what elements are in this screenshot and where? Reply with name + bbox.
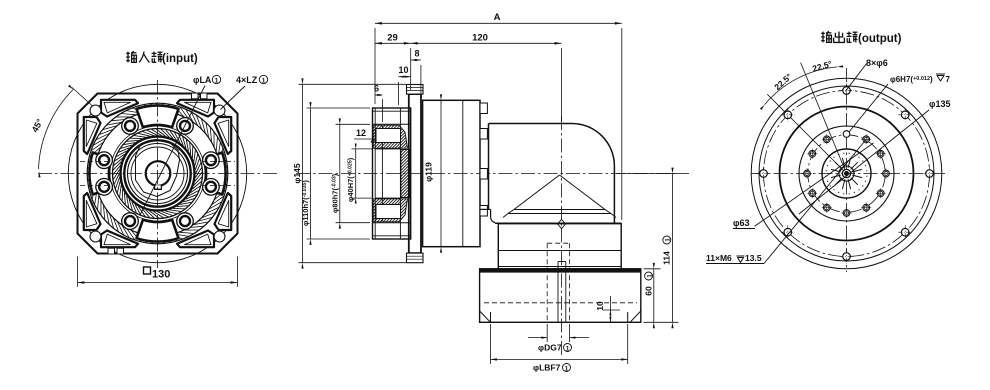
svg-text:φ135: φ135 (929, 99, 950, 109)
svg-text:22.5°: 22.5° (811, 58, 834, 73)
svg-text:114: 114 (662, 251, 672, 265)
svg-text:φLBF7: φLBF7 (533, 363, 561, 373)
svg-text:1: 1 (262, 78, 266, 85)
svg-text:φLA: φLA (193, 75, 212, 85)
svg-text:φ119: φ119 (424, 162, 434, 182)
svg-text:φ40H7(+0.025): φ40H7(+0.025) (346, 157, 355, 202)
svg-text:130: 130 (152, 269, 170, 281)
svg-text:11×M6: 11×M6 (706, 253, 732, 263)
svg-text:6: 6 (374, 84, 379, 94)
svg-text:φ63: φ63 (733, 218, 749, 228)
svg-text:A: A (494, 12, 501, 23)
svg-text:(output): (output) (858, 33, 902, 45)
svg-text:8×φ6: 8×φ6 (866, 58, 888, 68)
svg-text:φ80h7(-0.03): φ80h7(-0.03) (330, 173, 339, 213)
svg-text:φ110h7(-0.035): φ110h7(-0.035) (301, 180, 310, 226)
svg-text:φ6H7(+0.012): φ6H7(+0.012) (890, 75, 933, 84)
svg-text:φDG7: φDG7 (538, 343, 562, 353)
svg-text:1: 1 (215, 78, 219, 85)
svg-text:7: 7 (946, 75, 951, 84)
svg-text:(input): (input) (162, 53, 198, 65)
svg-text:10: 10 (398, 65, 408, 75)
svg-text:22.5°: 22.5° (772, 71, 794, 92)
svg-text:60: 60 (643, 286, 653, 296)
svg-text:45°: 45° (30, 117, 45, 134)
svg-text:12: 12 (356, 128, 366, 138)
svg-text:10: 10 (595, 301, 605, 311)
svg-text:29: 29 (387, 33, 398, 44)
svg-text:120: 120 (472, 33, 488, 44)
svg-text:13.5: 13.5 (745, 253, 762, 263)
svg-text:8: 8 (414, 49, 419, 59)
svg-text:4×LZ: 4×LZ (236, 75, 258, 85)
